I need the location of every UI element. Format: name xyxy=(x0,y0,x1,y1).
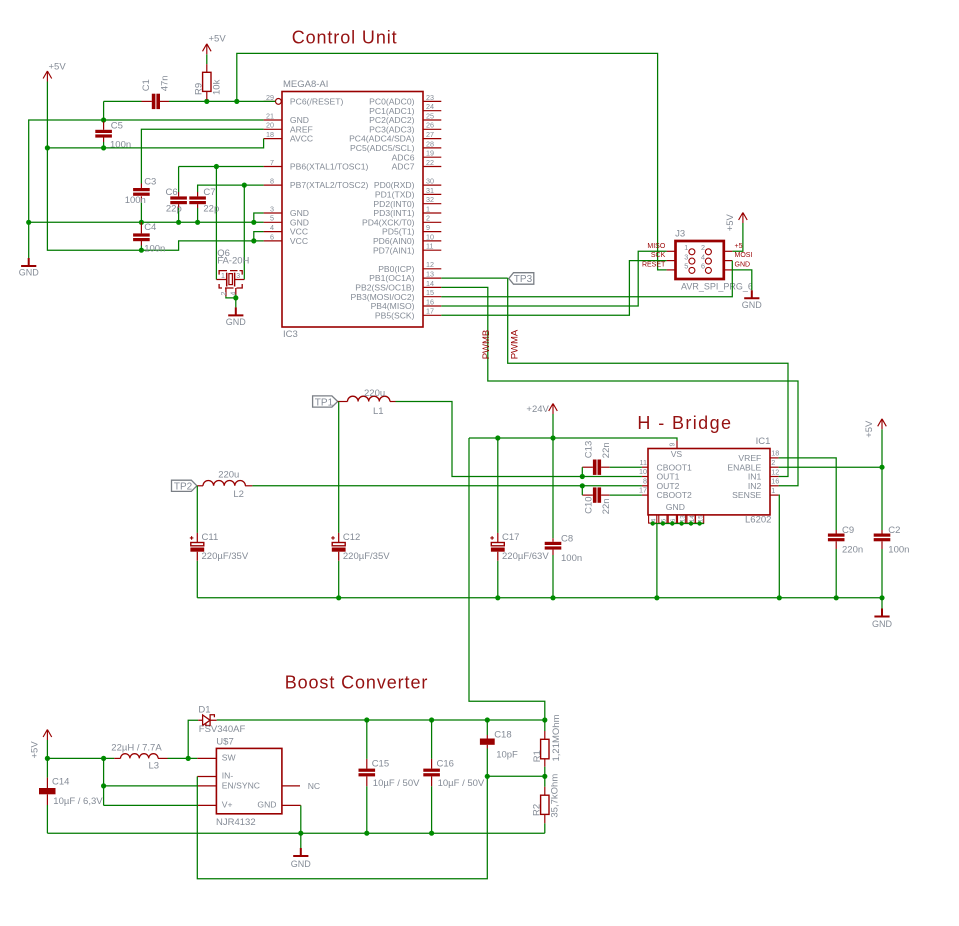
IC1 pin 12 IN1 xyxy=(770,476,779,478)
node GND vertical/pin5 row xyxy=(26,220,31,225)
IC1 pin 18 VREF xyxy=(770,457,779,459)
node SENSE gnd xyxy=(777,595,782,600)
svg-text:VCC: VCC xyxy=(290,236,308,246)
capacitor C6 xyxy=(170,196,187,199)
svg-text:+5: +5 xyxy=(735,243,743,250)
IC1 pin 17 CBOOT2 xyxy=(642,494,648,496)
node C6 bottom xyxy=(176,220,181,225)
svg-text:CBOOT2: CBOOT2 xyxy=(657,490,693,500)
svg-text:NC: NC xyxy=(308,781,320,791)
U$7 pin IN- xyxy=(197,776,216,778)
IC1 pin 2 ENABLE xyxy=(770,466,779,468)
svg-text:AVR_SPI_PRG_6: AVR_SPI_PRG_6 xyxy=(681,282,753,292)
svg-text:GND: GND xyxy=(291,859,312,869)
capacitor C15 xyxy=(359,769,376,772)
+5V supply (R9) xyxy=(203,44,212,55)
IC U$7 NJR4132 body xyxy=(216,748,282,813)
wire PWMA net xyxy=(508,278,788,476)
svg-text:100n: 100n xyxy=(110,139,131,150)
wire IC1 gnd to rail xyxy=(656,524,658,598)
svg-text:U$7: U$7 xyxy=(216,736,233,747)
wire C15 column xyxy=(366,720,368,759)
svg-text:C9: C9 xyxy=(842,525,854,536)
capacitor C14 xyxy=(39,788,56,794)
svg-text:R9: R9 xyxy=(194,83,205,95)
IC3 pin 2 PD4(XCK/T0) xyxy=(423,221,441,223)
svg-text:+5V: +5V xyxy=(864,420,875,438)
IC3 pin 15 PB3(MOSI/OC2) xyxy=(423,296,441,298)
capacitor C5 leads xyxy=(103,122,105,130)
node C4 bottom xyxy=(139,248,144,253)
IC3 pin 21 GND xyxy=(264,119,282,121)
IC1 pin 16 IN2 xyxy=(770,485,779,487)
svg-text:C12: C12 xyxy=(343,532,360,543)
IC3 pin 13 PB1(OC1A) xyxy=(423,277,441,279)
svg-text:L1: L1 xyxy=(373,406,384,417)
inductor L2 xyxy=(203,481,245,486)
svg-text:PB5(SCK): PB5(SCK) xyxy=(375,310,415,320)
svg-text:C16: C16 xyxy=(437,758,454,769)
wire +5V to VCC rows xyxy=(47,82,263,251)
svg-text:1: 1 xyxy=(684,243,688,252)
capacitor C18 xyxy=(480,739,495,745)
svg-text:15: 15 xyxy=(697,515,704,523)
capacitor C13 xyxy=(593,460,597,475)
svg-text:PD7(AIN1): PD7(AIN1) xyxy=(373,245,415,255)
wire C12 to gnd rail xyxy=(338,561,340,598)
svg-text:TP2: TP2 xyxy=(174,482,193,493)
node C17 top xyxy=(495,435,500,440)
J3 pin 2 +5 xyxy=(724,250,733,252)
wire XTAL2 pin8 row xyxy=(198,185,264,192)
capacitor C8 xyxy=(545,542,562,545)
svg-text:10µF / 6,3V: 10µF / 6,3V xyxy=(53,796,103,807)
wire SW to D1 xyxy=(188,720,198,758)
svg-text:10µF / 50V: 10µF / 50V xyxy=(438,778,485,789)
svg-text:C1: C1 xyxy=(141,79,152,91)
node EN row xyxy=(101,783,106,788)
capacitor C16 xyxy=(423,769,440,772)
svg-text:29: 29 xyxy=(266,93,274,102)
wire pin4 VCC jog xyxy=(254,232,264,241)
svg-text:1: 1 xyxy=(426,204,430,213)
IC3 pin 8 PB7(XTAL2/TOSC2) xyxy=(264,184,282,186)
diode D1 FSV340AF xyxy=(198,715,217,726)
svg-text:22p: 22p xyxy=(203,204,219,215)
svg-text:C15: C15 xyxy=(372,758,389,769)
wire R2 top xyxy=(544,776,546,786)
IC1 gnd pin 4 xyxy=(649,515,657,523)
capacitor C18 leads xyxy=(486,735,488,739)
svg-text:+5V: +5V xyxy=(49,62,67,73)
crystal Q6 FA-20H xyxy=(216,271,244,297)
svg-text:30: 30 xyxy=(426,177,434,186)
IC3 pin 29 PC6(/RESET) xyxy=(264,100,276,102)
+24V supply xyxy=(549,404,558,415)
test point TP1 xyxy=(313,396,338,407)
svg-text:IN-: IN- xyxy=(222,771,234,781)
connector J3 body xyxy=(676,241,724,279)
svg-text:220µF/63V: 220µF/63V xyxy=(502,551,549,562)
svg-text:2: 2 xyxy=(771,458,775,467)
wire C6 bottom to GND row xyxy=(178,208,180,222)
svg-text:16: 16 xyxy=(771,477,779,486)
svg-text:NJR4132: NJR4132 xyxy=(216,817,256,828)
J3 pin 6 GND xyxy=(724,269,733,271)
svg-text:V+: V+ xyxy=(222,800,233,810)
IC3 pin 30 PD0(RXD) xyxy=(423,184,441,186)
wire C18 to feedback xyxy=(486,749,488,777)
IC1 pin 9 VS xyxy=(676,441,678,449)
inductor L3 xyxy=(120,754,158,759)
capacitor C1 xyxy=(152,94,156,109)
svg-text:L3: L3 xyxy=(149,761,160,772)
svg-text:GND: GND xyxy=(257,800,276,810)
svg-text:21: 21 xyxy=(266,111,274,120)
wire C14 column xyxy=(46,758,48,777)
node R9 bottom xyxy=(204,99,209,104)
node C9 gnd xyxy=(834,595,839,600)
svg-text:PC6(/RESET): PC6(/RESET) xyxy=(290,97,344,107)
capacitor C15 leads xyxy=(366,759,368,769)
wire C2 to gnd rail xyxy=(881,549,883,598)
ground (crystal) xyxy=(228,307,243,315)
IC3 pin 22 ADC7 xyxy=(423,166,441,168)
svg-text:25: 25 xyxy=(426,111,434,120)
wire C13 to CBOOT1 pin xyxy=(610,466,642,468)
wire C17 to gnd rail xyxy=(497,561,499,598)
svg-text:6: 6 xyxy=(270,232,274,241)
IC3 pin 25 PC2(ADC2) xyxy=(423,119,441,121)
svg-text:R2: R2 xyxy=(532,804,543,816)
svg-text:FA-20H: FA-20H xyxy=(217,255,249,266)
svg-text:C2: C2 xyxy=(888,525,900,536)
wire TP2 branch to C11 xyxy=(196,486,198,533)
U$7 pin NC xyxy=(282,785,300,787)
svg-text:L6202: L6202 xyxy=(745,514,771,525)
wire EN net vertical xyxy=(103,758,105,805)
wire D1 output rail xyxy=(217,719,545,721)
node C5 bottom/AVCC xyxy=(101,145,106,150)
svg-text:5: 5 xyxy=(270,214,274,223)
capacitor C2 leads xyxy=(881,530,883,534)
IC3 pin 26 PC3(ADC3) xyxy=(423,128,441,130)
capacitor C6 leads xyxy=(178,192,180,196)
resistor R9 leads xyxy=(206,64,208,72)
wire supply to R9 xyxy=(206,54,208,64)
wire C9 to gnd rail xyxy=(835,549,837,598)
capacitor C10 leads xyxy=(582,494,593,496)
capacitor C2 xyxy=(874,534,891,537)
IC3 pin 6 VCC xyxy=(264,240,282,242)
IC3 pin 9 PD5(T1) xyxy=(423,231,441,233)
IC3 pin 16 PB4(MISO) xyxy=(423,305,441,307)
svg-text:3: 3 xyxy=(684,252,688,261)
IC3 MEGA8-AI body xyxy=(282,92,423,328)
IC3 pin 20 AREF xyxy=(264,128,282,130)
svg-text:4: 4 xyxy=(231,292,238,296)
IC3 pin 14 PB2(SS/OC1B) xyxy=(423,286,441,288)
node C7 bottom xyxy=(195,220,200,225)
J3 pin 4 MOSI xyxy=(724,260,733,262)
IC1 gnd pin 13 xyxy=(678,515,686,523)
wire L2 to OUT2 xyxy=(252,485,642,487)
svg-text:10: 10 xyxy=(426,232,434,241)
svg-text:GND: GND xyxy=(742,300,763,310)
wire C4 bottom to VCC row xyxy=(140,246,142,251)
wire feedback net xyxy=(197,776,487,879)
node C17 gnd xyxy=(495,595,500,600)
svg-text:13: 13 xyxy=(426,270,434,279)
node C2 gnd xyxy=(879,595,884,600)
ground (J3) xyxy=(744,290,759,298)
node EN branch xyxy=(101,756,106,761)
resistor R9 xyxy=(203,72,211,91)
wire crystal pin3 column xyxy=(243,185,245,279)
node C3 bottom xyxy=(139,220,144,225)
node C12 gnd xyxy=(336,595,341,600)
svg-text:3: 3 xyxy=(270,204,274,213)
svg-text:H - Bridge: H - Bridge xyxy=(637,413,732,433)
svg-text:TP1: TP1 xyxy=(315,397,334,408)
svg-text:IC1: IC1 xyxy=(756,436,771,447)
wire +5V to J3 +5 pin xyxy=(732,223,743,251)
wire +5V to input row xyxy=(46,740,48,758)
svg-text:100n: 100n xyxy=(888,545,909,556)
IC3 pin 17 PB5(SCK) xyxy=(423,314,441,316)
svg-text:1: 1 xyxy=(221,273,225,280)
wire C18 column xyxy=(486,720,488,735)
wire C16 column xyxy=(431,720,433,759)
wire ENABLE to +5V xyxy=(779,466,882,468)
svg-text:C18: C18 xyxy=(494,730,511,741)
wire pin7 to C6 xyxy=(178,167,180,193)
capacitor C9 leads xyxy=(835,530,837,534)
IC1 gnd pin 14 xyxy=(687,515,695,523)
wire R9 to reset row xyxy=(206,100,208,102)
svg-text:C3: C3 xyxy=(144,176,156,187)
svg-text:10µF / 50V: 10µF / 50V xyxy=(373,778,420,789)
svg-text:18: 18 xyxy=(771,449,779,458)
node C5 top xyxy=(101,117,106,122)
svg-text:18: 18 xyxy=(266,130,274,139)
node C8 gnd xyxy=(550,595,555,600)
svg-text:SW: SW xyxy=(222,752,237,762)
svg-text:C7: C7 xyxy=(203,187,215,198)
svg-text:22p: 22p xyxy=(166,204,182,215)
node C16 gnd xyxy=(429,831,434,836)
ground (H-bridge) xyxy=(874,609,889,617)
svg-text:C5: C5 xyxy=(111,121,123,132)
svg-text:1,21MOhm: 1,21MOhm xyxy=(551,714,562,761)
svg-text:14: 14 xyxy=(689,515,696,523)
resistor R2 leads xyxy=(544,787,546,796)
svg-text:13: 13 xyxy=(679,515,686,523)
wire L3 to SW node xyxy=(168,757,198,759)
+5V supply (control left) xyxy=(43,71,52,82)
svg-text:100n: 100n xyxy=(561,553,582,564)
svg-text:C10: C10 xyxy=(584,496,595,513)
wire RESET top route to J3 xyxy=(237,53,667,270)
capacitor C11 xyxy=(196,533,198,561)
IC3 pin 5 GND xyxy=(264,221,282,223)
wire R1 top xyxy=(544,720,546,731)
IC3 pin 28 PC5(ADC5/SCL) xyxy=(423,147,441,149)
resistor R1 leads xyxy=(544,731,546,739)
svg-text:8: 8 xyxy=(270,177,274,186)
svg-text:C17: C17 xyxy=(502,532,519,543)
wire C1 left to GND row xyxy=(103,101,105,120)
node C8 top xyxy=(550,435,555,440)
svg-text:1: 1 xyxy=(771,486,775,495)
wire GND pin5 row xyxy=(29,221,264,223)
node R1/R2 xyxy=(542,774,547,779)
IC3 pin 3 GND xyxy=(264,212,282,214)
wire MISO net xyxy=(441,251,666,306)
svg-text:100n: 100n xyxy=(144,244,165,255)
svg-text:32: 32 xyxy=(426,195,434,204)
svg-text:19: 19 xyxy=(426,149,434,158)
IC3 pin 1 PD3(INT1) xyxy=(423,212,441,214)
resistor R2 xyxy=(541,795,549,814)
svg-text:GND: GND xyxy=(666,502,685,512)
inductor L3 leads xyxy=(114,757,120,759)
IC1 gnd pin 15 xyxy=(696,515,704,523)
svg-text:22n: 22n xyxy=(601,498,612,514)
IC3 pin 27 PC4(ADC4/SDA) xyxy=(423,138,441,140)
capacitor C10 xyxy=(593,487,597,502)
wire RESET net row xyxy=(104,100,142,102)
node U$7 gnd xyxy=(298,831,303,836)
wire IC1 gnd pins bus xyxy=(653,523,704,525)
svg-text:4: 4 xyxy=(651,518,658,522)
IC1 gnd pin 5 xyxy=(659,515,667,523)
capacitor C4 xyxy=(133,233,150,236)
J3 pin 1 MISO xyxy=(667,250,676,252)
IC1 L6202 body xyxy=(648,449,770,515)
wire feedback to divider xyxy=(487,775,545,777)
wire U$7 gnd to rail xyxy=(300,805,302,833)
svg-text:4: 4 xyxy=(701,252,705,261)
node C16 top xyxy=(429,717,434,722)
node SW/D1 xyxy=(186,756,191,761)
node crystal case junction xyxy=(233,295,238,300)
wire EN/SYNC row xyxy=(104,785,198,787)
wire SENSE to rail xyxy=(778,495,781,598)
IC3 pin 19 ADC6 xyxy=(423,156,441,158)
svg-text:MEGA8-AI: MEGA8-AI xyxy=(283,79,328,90)
wire crystal case to ground xyxy=(226,296,236,298)
capacitor C1 leads xyxy=(142,100,152,102)
svg-text:RESET: RESET xyxy=(642,262,666,269)
IC3 pin 12 PB0(ICP) xyxy=(423,268,441,270)
J3 pin 5 RESET xyxy=(667,269,676,271)
wire L1 to OUT1 xyxy=(396,402,642,477)
IC3 pin 31 PD1(TXD) xyxy=(423,193,441,195)
wire C8 to gnd rail xyxy=(552,555,554,598)
svg-text:+5V: +5V xyxy=(30,741,41,759)
svg-text:27: 27 xyxy=(426,130,434,139)
U$7 pin SW xyxy=(197,757,216,759)
svg-text:8: 8 xyxy=(643,476,647,485)
wire pin3 GND jog xyxy=(254,213,264,222)
wire MOSI net xyxy=(441,261,732,297)
svg-text:+5V: +5V xyxy=(209,33,227,44)
node ENABLE/+5V xyxy=(879,465,884,470)
wire R2 bottom xyxy=(544,823,546,833)
capacitor C3 leads xyxy=(140,184,142,189)
svg-text:11: 11 xyxy=(426,242,433,251)
wire C15 to gnd rail xyxy=(366,786,368,833)
U$7 pin EN/SYNC xyxy=(197,785,216,787)
wire gnd rail (boost) xyxy=(47,832,544,834)
wire C17 column xyxy=(497,438,499,533)
IC3 pin 18 AVCC xyxy=(264,138,282,140)
IC1 gnd pin 6 xyxy=(668,515,676,523)
node C10/OUT2 xyxy=(580,483,585,488)
svg-text:9: 9 xyxy=(670,443,677,447)
wire C11 to gnd rail xyxy=(196,561,198,598)
IC3 pin 32 PD2(INT0) xyxy=(423,203,441,205)
node crystal pin3 branch xyxy=(242,183,247,188)
svg-text:PB6(XTAL1/TOSC1): PB6(XTAL1/TOSC1) xyxy=(290,162,369,172)
svg-text:C11: C11 xyxy=(202,532,219,543)
wire PB1 to TP3 xyxy=(441,277,507,279)
wire TP1 branch to C12 xyxy=(338,402,340,533)
svg-text:5: 5 xyxy=(661,518,668,522)
IC1 pin 1 SENSE xyxy=(770,494,779,496)
IC3 pin 10 PD6(AIN0) xyxy=(423,240,441,242)
capacitor C17 xyxy=(497,533,499,561)
wire gnd rail (h-bridge) xyxy=(197,597,882,599)
capacitor C5 xyxy=(95,130,112,133)
capacitor C3 xyxy=(133,188,150,191)
svg-text:6: 6 xyxy=(670,518,677,522)
node C18 top xyxy=(485,717,490,722)
svg-text:11: 11 xyxy=(640,458,647,467)
node C15 top xyxy=(364,717,369,722)
svg-text:SENSE: SENSE xyxy=(732,490,761,500)
wire XTAL1 pin7 row xyxy=(179,166,264,168)
wire J3 GND to ground xyxy=(732,270,752,290)
node R1 top xyxy=(542,717,547,722)
svg-text:PWMB: PWMB xyxy=(481,330,492,360)
IC1 pin 8 OUT2 xyxy=(642,485,648,487)
IC3 pin 4 VCC xyxy=(264,231,282,233)
svg-text:26: 26 xyxy=(426,121,434,130)
svg-text:PWMA: PWMA xyxy=(510,329,521,359)
svg-text:2: 2 xyxy=(221,292,228,296)
capacitor C7 xyxy=(189,196,206,199)
svg-text:20: 20 xyxy=(266,121,274,130)
node C15 gnd xyxy=(364,831,369,836)
inductor L1 leads xyxy=(338,401,348,403)
svg-text:100n: 100n xyxy=(125,195,146,206)
node VCC pin4/pin6 xyxy=(251,238,256,243)
svg-text:47n: 47n xyxy=(160,75,171,91)
wire crystal pin1 column xyxy=(215,167,217,280)
svg-text:D1: D1 xyxy=(198,705,210,716)
svg-text:5: 5 xyxy=(684,262,688,271)
IC3 pin 23 PC0(ADC0) xyxy=(423,100,441,102)
svg-text:FSV340AF: FSV340AF xyxy=(199,724,246,735)
svg-text:22n: 22n xyxy=(601,442,612,458)
svg-text:7: 7 xyxy=(270,158,274,167)
capacitor C9 xyxy=(828,534,845,537)
wire C3 bottom to GND row xyxy=(140,202,142,223)
svg-text:PB7(XTAL2/TOSC2): PB7(XTAL2/TOSC2) xyxy=(290,180,369,190)
svg-text:22: 22 xyxy=(426,158,434,167)
